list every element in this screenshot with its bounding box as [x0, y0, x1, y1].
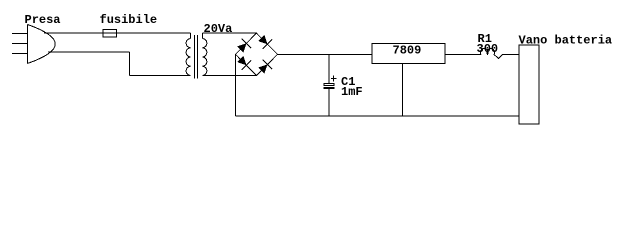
battery compartment box (Vano batteria) — [519, 45, 539, 124]
diode D2 (upper-right, T to R) — [258, 35, 272, 49]
capacitor C1 plates — [324, 84, 335, 89]
mains plug (Presa) — [12, 25, 55, 64]
capacitor C1 lead bottom — [328, 89, 330, 117]
bottom rail — [236, 115, 520, 117]
capacitor C1 lead top — [328, 55, 330, 84]
svg-text:7809: 7809 — [393, 44, 422, 58]
fuse F1 — [103, 30, 117, 38]
regulator U1 7809 box — [372, 44, 445, 64]
capacitor plus sign — [331, 76, 337, 82]
diode D4 (lower-right, B to R) — [258, 60, 272, 74]
diode D3 (lower-left, L to B) — [237, 56, 251, 70]
resistor R1 body — [480, 48, 504, 58]
wire transformer secondary top to bridge top node — [203, 33, 257, 38]
svg-text:fusibile: fusibile — [100, 13, 158, 27]
wire transformer secondary bottom to bridge bottom node — [203, 75, 257, 77]
transformer T1 primary coil — [186, 39, 190, 76]
wire 7809 output to resistor — [445, 54, 481, 56]
wire plug to fuse (top) — [44, 32, 191, 34]
diode D1 (upper-left, L to T) — [237, 39, 251, 53]
bridge rectifier diamond outline — [236, 33, 278, 75]
positive rail: bridge right node to 7809 input — [278, 54, 373, 56]
transformer T1 core — [195, 35, 198, 79]
svg-text:Presa: Presa — [25, 13, 61, 27]
transformer T1 secondary coil — [203, 39, 207, 76]
wire resistor to battery box — [505, 54, 520, 56]
svg-text:20Va: 20Va — [204, 22, 233, 36]
svg-text:1mF: 1mF — [341, 85, 363, 99]
wire 7809 ground pin to bottom rail — [402, 64, 404, 117]
wire plug to transformer primary bottom — [48, 52, 191, 76]
wire bridge negative (left node) down to bottom rail — [235, 54, 237, 116]
wire fuse to transformer primary top — [190, 33, 192, 39]
